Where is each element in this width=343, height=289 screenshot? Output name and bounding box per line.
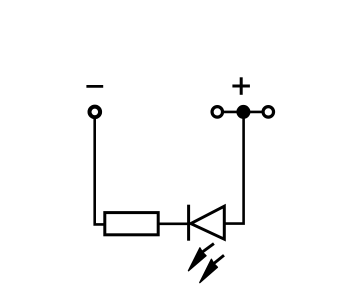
plus polarity label — [232, 77, 250, 95]
LED — [189, 205, 225, 283]
terminal node: minus clamp (open circle) — [90, 107, 101, 118]
wire: plus terminal rail — [217, 111, 268, 114]
LED light arrow 2 — [200, 255, 224, 282]
wire: resistor to LED cathode — [158, 223, 190, 226]
terminal node: plus clamp right (open circle) — [263, 107, 274, 118]
LED cathode bar — [187, 205, 190, 241]
junction: plus feed-through (filled node) — [236, 105, 250, 119]
wire: minus terminal down and right to resistor — [95, 118, 105, 224]
LED light arrow 1 — [189, 244, 214, 271]
wire: LED anode up to plus rail — [224, 118, 243, 224]
LED triangle — [191, 206, 225, 239]
terminal node: plus clamp left (open circle) — [212, 107, 223, 118]
minus polarity label — [86, 85, 103, 88]
resistor — [105, 213, 158, 235]
